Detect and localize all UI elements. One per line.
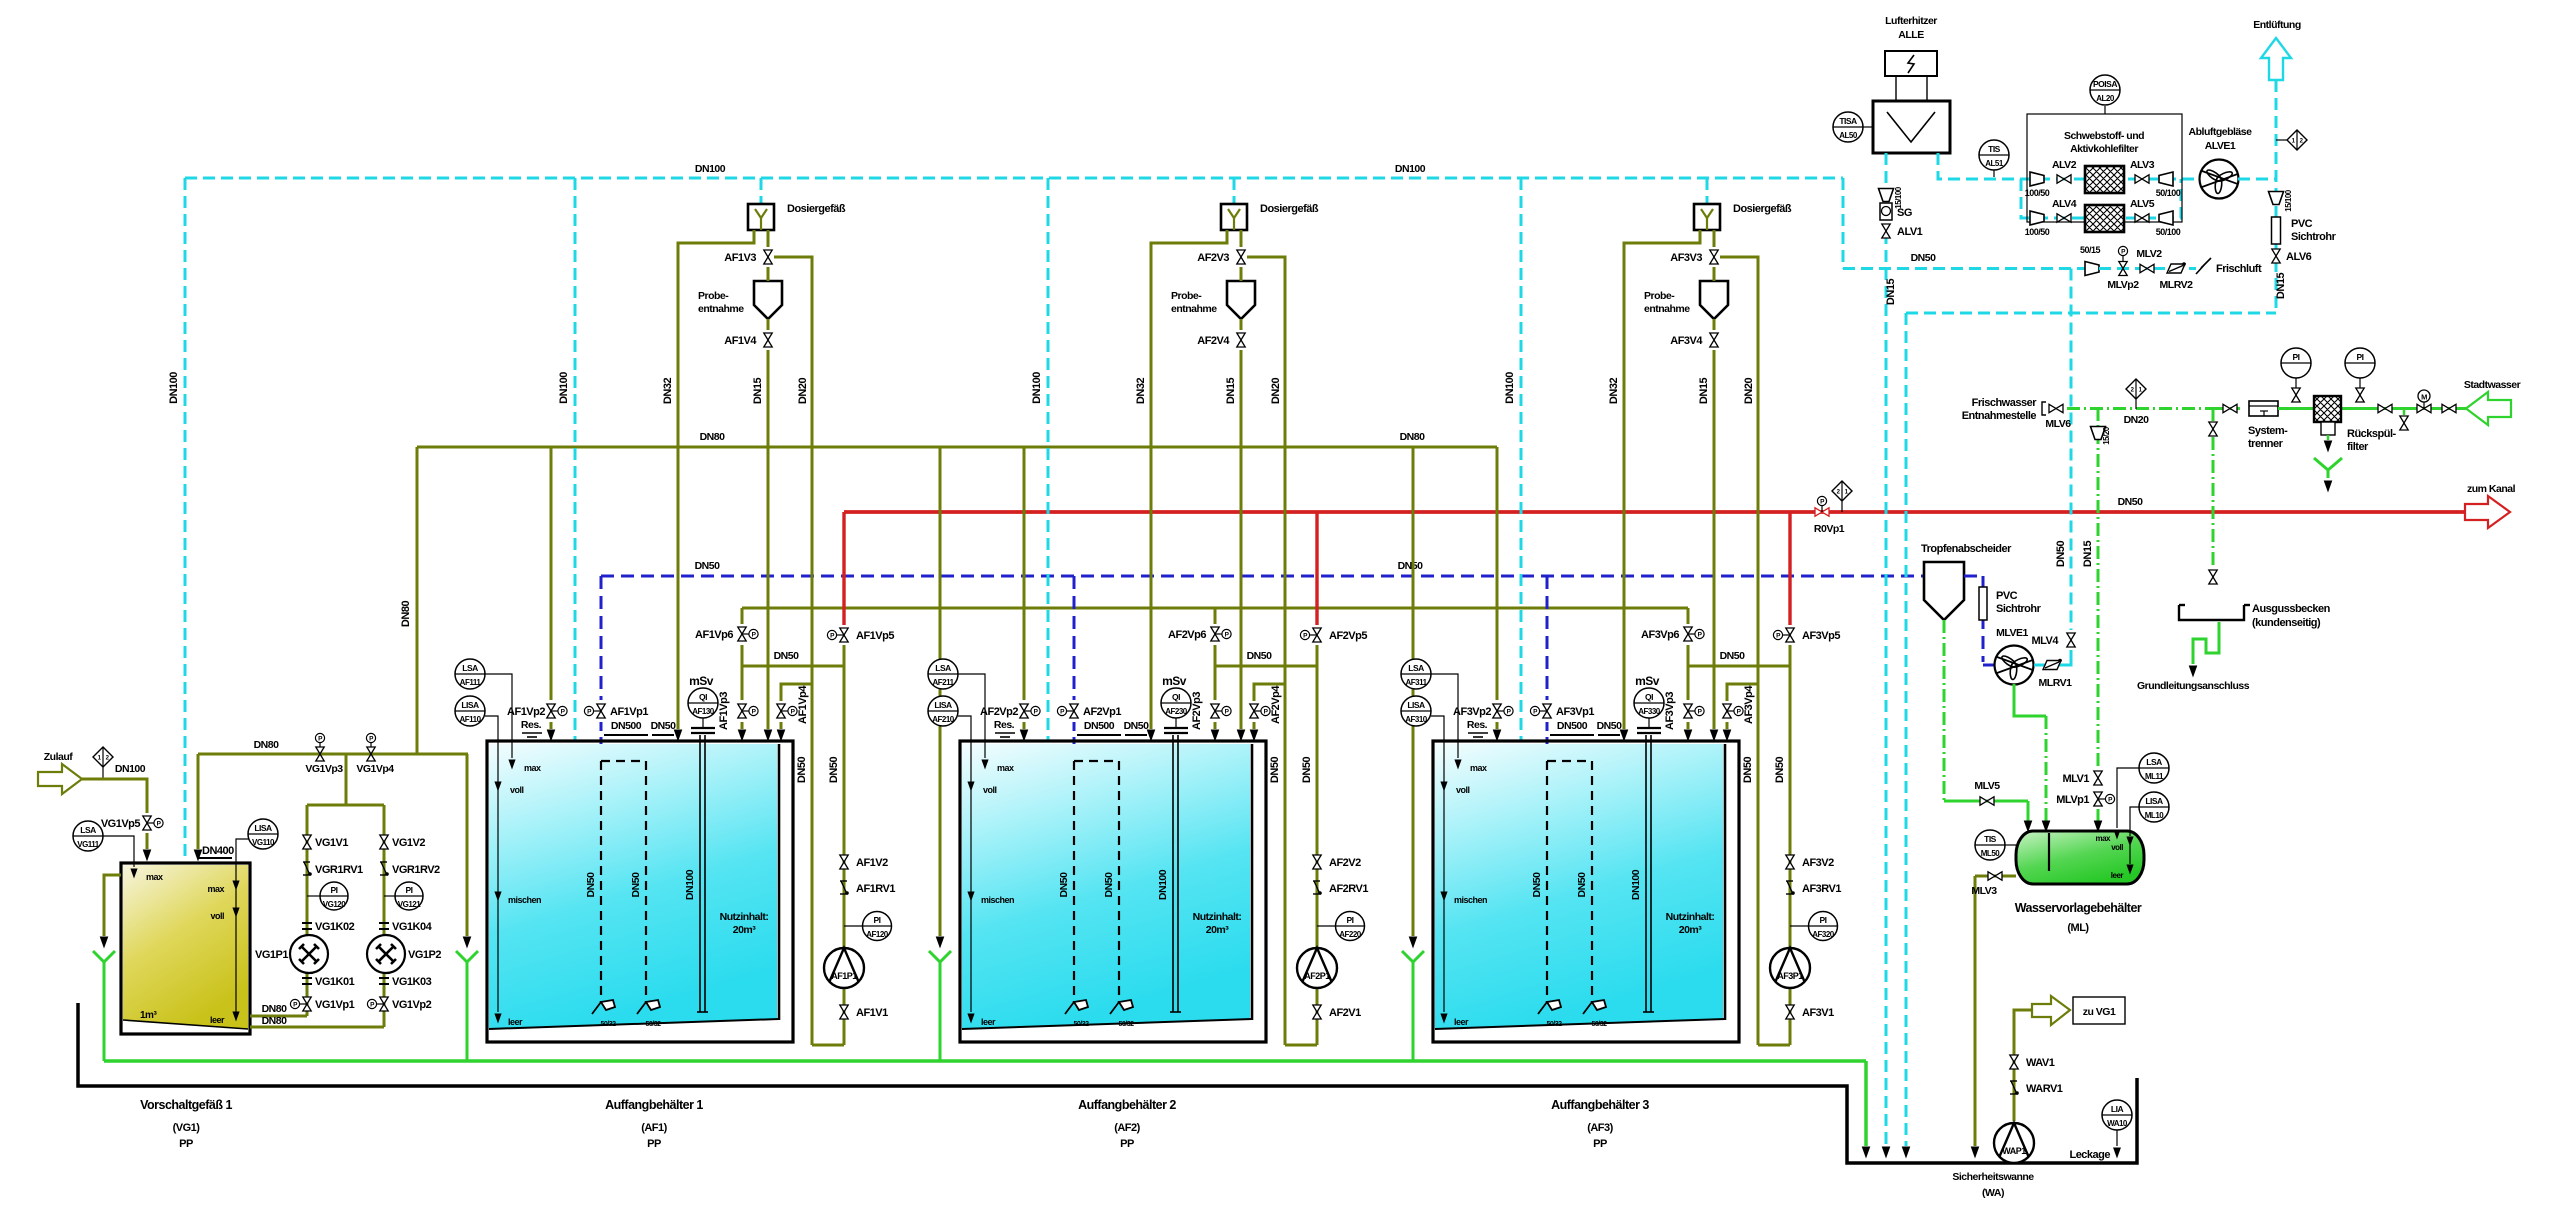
bracket MLV6 bbox=[2042, 402, 2046, 415]
wire red riser AF1 bbox=[842, 512, 845, 625]
label DN20 AF3 bbox=[1743, 378, 1755, 405]
valve AF1V4 bbox=[764, 319, 772, 347]
wire olive DN50 pump col AF2 bbox=[1285, 666, 1317, 1045]
valve systemtrenner inlet bbox=[2223, 404, 2237, 412]
drain funnel Y AF3 bbox=[1402, 951, 1424, 1061]
tank AF3 fill bbox=[1435, 744, 1723, 1029]
label Tropfenabscheider bbox=[1921, 543, 2012, 555]
wire olive Vp6 to T AF1 bbox=[741, 645, 744, 700]
label AF3V1 bbox=[1802, 1007, 1834, 1019]
label DN20 bbox=[2124, 414, 2150, 426]
label MLVp2 bbox=[2107, 279, 2139, 291]
fan Abluftgeblaese ALVE1 bbox=[2200, 160, 2239, 199]
svg-text:DN50: DN50 bbox=[1597, 720, 1623, 732]
svg-text:DN100: DN100 bbox=[1157, 869, 1169, 900]
wire green MLV5 line bbox=[1944, 800, 2024, 803]
label Leckage bbox=[2069, 1149, 2110, 1161]
svg-text:Probe-: Probe- bbox=[698, 290, 729, 302]
svg-text:DN20: DN20 bbox=[2124, 414, 2150, 426]
label AF2Vp3 bbox=[1191, 692, 1203, 730]
label Dosiergefaess AF2 bbox=[1260, 203, 1319, 215]
svg-text:Dosiergefäß: Dosiergefäß bbox=[1260, 203, 1319, 215]
svg-text:ALV5: ALV5 bbox=[2130, 198, 2155, 210]
funnel Probeentnahme AF2 bbox=[1227, 267, 1255, 319]
svg-text:LISA: LISA bbox=[461, 700, 479, 710]
wire blue into tank AF3 bbox=[1546, 722, 1549, 761]
valve AF2Vp6 bbox=[1211, 627, 1231, 641]
vessel Tropfenabscheider bbox=[1924, 562, 1964, 620]
valve ALV3 bbox=[2135, 175, 2149, 183]
label ALV4 bbox=[2052, 198, 2077, 210]
svg-text:System-: System- bbox=[2248, 425, 2288, 437]
label Ausgussbecken bbox=[2252, 603, 2331, 629]
box zu VG1 bbox=[2073, 997, 2125, 1024]
wire olive into tank Vp3 AF1 bbox=[738, 722, 745, 740]
svg-text:AF310: AF310 bbox=[1405, 715, 1428, 724]
svg-text:VG1Vp3: VG1Vp3 bbox=[305, 763, 343, 775]
svg-text:AF2Vp2: AF2Vp2 bbox=[980, 706, 1018, 718]
label WARV1 bbox=[2026, 1083, 2063, 1095]
tank AF1 outline bbox=[487, 741, 793, 1042]
wire olive DN50 left down AF3 bbox=[1757, 684, 1760, 1045]
svg-text:DN15: DN15 bbox=[1885, 279, 1897, 306]
label DN50 cross AF3 bbox=[1720, 650, 1746, 662]
svg-text:AF1Vp5: AF1Vp5 bbox=[856, 630, 894, 642]
svg-text:AF2Vp5: AF2Vp5 bbox=[1329, 630, 1367, 642]
wire red riser AF3 bbox=[1788, 512, 1791, 625]
Lufterhitzer main box bbox=[1873, 101, 1950, 153]
label Frischluft bbox=[2216, 263, 2262, 275]
wire cyan lower filter row bbox=[2021, 179, 2181, 218]
label AF3Vp6 bbox=[1641, 629, 1679, 641]
dip tube DN50a AF1 bbox=[601, 761, 646, 1003]
nozzle 50/32 b AF2 bbox=[1110, 1000, 1134, 1028]
wire olive DN20 branch AF1 bbox=[774, 257, 812, 684]
svg-text:AF111: AF111 bbox=[460, 678, 482, 687]
svg-text:Abluftgebläse: Abluftgebläse bbox=[2189, 126, 2253, 138]
svg-text:VG1V2: VG1V2 bbox=[392, 837, 425, 849]
svg-text:voll: voll bbox=[983, 785, 997, 795]
svg-text:VG1Vp5: VG1Vp5 bbox=[101, 818, 141, 830]
svg-text:AF2Vp6: AF2Vp6 bbox=[1168, 629, 1206, 641]
labels DN50 tubes AF1 bbox=[585, 872, 642, 898]
wire green into ML tank bbox=[2024, 801, 2032, 831]
label DN80 main bbox=[700, 431, 1426, 443]
svg-text:AF2P1: AF2P1 bbox=[1304, 971, 1330, 981]
wire green siphon bbox=[2189, 622, 2219, 676]
valve AF2Vp2 bbox=[1020, 704, 1040, 718]
label MLVE1 bbox=[1996, 627, 2028, 639]
basin Ausgussbecken bbox=[2179, 605, 2250, 620]
label Lufterhitzer bbox=[1885, 15, 1937, 41]
filter enclosure box bbox=[2027, 114, 2182, 222]
Dosiergefaess box AF3 bbox=[1694, 204, 1720, 230]
label AF1Vp4 bbox=[797, 685, 809, 724]
label DN50 red main bbox=[2118, 496, 2144, 508]
label AF2RV1 bbox=[1329, 883, 1368, 895]
svg-text:VG1K02: VG1K02 bbox=[315, 921, 355, 933]
svg-text:QI: QI bbox=[1172, 692, 1180, 702]
instrument LSA AF111 bbox=[455, 659, 515, 768]
drain Y Rueckspuelfilter bbox=[2314, 458, 2342, 491]
valve MLV5 bbox=[1980, 797, 1994, 805]
wire olive into tank Vp4 AF2 bbox=[1250, 722, 1257, 740]
valve AF2Vp1 bbox=[1057, 704, 1078, 718]
arrow zu VG1 bbox=[2032, 996, 2070, 1025]
label DN15 AF1 bbox=[752, 378, 764, 405]
label AF3V2 bbox=[1802, 857, 1834, 869]
reducer 50/15 bbox=[2080, 245, 2101, 276]
wire blue drop AF3 bbox=[1546, 576, 1549, 700]
label DN100 tube AF3 bbox=[1630, 869, 1642, 900]
label AF1V3 bbox=[724, 252, 756, 264]
wire olive DN32 branch AF1 bbox=[674, 230, 754, 740]
svg-text:Auffangbehälter 1: Auffangbehälter 1 bbox=[605, 1098, 703, 1112]
svg-text:AF311: AF311 bbox=[1405, 678, 1427, 687]
label AF3Vp1 bbox=[1556, 706, 1594, 718]
label DN50 MLV4 riser bbox=[2055, 541, 2067, 568]
svg-text:mischen: mischen bbox=[508, 895, 541, 905]
wire blue drop AF2 bbox=[1073, 576, 1076, 700]
valve WAV1 bbox=[2010, 1055, 2018, 1069]
valve AF1Vp3 bbox=[738, 704, 758, 718]
svg-text:DN100: DN100 bbox=[1504, 372, 1516, 404]
svg-text:MLRV1: MLRV1 bbox=[2039, 677, 2073, 689]
wire olive Zulauf line bbox=[82, 779, 147, 813]
svg-text:AF3Vp2: AF3Vp2 bbox=[1453, 706, 1491, 718]
wire cyan fan outlet bbox=[2238, 178, 2276, 181]
funnel Probeentnahme AF1 bbox=[754, 267, 782, 319]
svg-text:LIA: LIA bbox=[2111, 1104, 2124, 1114]
label VG1V1 bbox=[315, 837, 348, 849]
svg-text:DN500: DN500 bbox=[1557, 720, 1588, 732]
drain funnel Y AF2 bbox=[929, 951, 951, 1061]
label VG1K03 bbox=[392, 976, 432, 988]
instrument TISA AL50 bbox=[1833, 112, 1873, 142]
svg-text:PP: PP bbox=[1120, 1138, 1134, 1150]
label VG1K04 bbox=[392, 921, 433, 933]
wire green dashdot frischwasser bbox=[2067, 407, 2213, 410]
wire olive riser Vp6 AF1 bbox=[741, 608, 744, 624]
label VG1V2 bbox=[392, 837, 425, 849]
tank VG1 outline bbox=[121, 863, 250, 1034]
svg-text:DN15: DN15 bbox=[1225, 378, 1237, 405]
svg-text:MLRV2: MLRV2 bbox=[2160, 279, 2194, 291]
svg-text:DN80: DN80 bbox=[254, 739, 280, 751]
label DN50 pump col AF3 bbox=[1774, 757, 1786, 784]
label AF3RV1 bbox=[1802, 883, 1841, 895]
arrow Stadtwasser bbox=[2466, 392, 2511, 425]
valve AF3Vp1 bbox=[1530, 704, 1551, 718]
svg-text:AF330: AF330 bbox=[1638, 707, 1661, 716]
label max ML bbox=[2095, 834, 2111, 843]
label VGR1RV1 bbox=[315, 864, 363, 876]
label Auffangbehaelter AF1 bbox=[605, 1098, 703, 1150]
valve AF3V1 bbox=[1786, 1005, 1794, 1019]
svg-text:AF3Vp5: AF3Vp5 bbox=[1802, 630, 1840, 642]
svg-text:MLVp1: MLVp1 bbox=[2056, 794, 2089, 806]
wire olive tank drain AF3 bbox=[1409, 447, 1416, 947]
wire cyan DN100 main header bbox=[185, 177, 1843, 180]
arrow Entlueftung bbox=[2261, 38, 2291, 80]
svg-text:DN100: DN100 bbox=[168, 372, 180, 404]
label VG1Vp3 bbox=[305, 763, 343, 775]
wire blue to sichtrohr bbox=[1964, 576, 1983, 662]
svg-text:DN15: DN15 bbox=[752, 378, 764, 405]
svg-text:DN50: DN50 bbox=[1124, 720, 1150, 732]
label AF3V4 bbox=[1670, 335, 1703, 347]
valve AF2V2 bbox=[1313, 855, 1321, 869]
wire cyan DN100 riser AF3 bbox=[1520, 178, 1523, 740]
valve ALV4 bbox=[2057, 214, 2071, 222]
labels DN50 tubes AF2 bbox=[1058, 872, 1115, 898]
label WAV1 bbox=[2026, 1057, 2055, 1069]
arrow Zulauf inlet bbox=[38, 764, 82, 794]
wire olive DN50 cross AF1 bbox=[742, 665, 844, 668]
svg-text:DN100: DN100 bbox=[1031, 372, 1043, 404]
svg-text:AF3P1: AF3P1 bbox=[1777, 971, 1803, 981]
wire cyan heater to filters bbox=[1938, 153, 2199, 179]
svg-text:AF2V1: AF2V1 bbox=[1329, 1007, 1361, 1019]
wire cyan DN50 frischluft bbox=[1843, 267, 2086, 270]
svg-text:DN15: DN15 bbox=[2082, 541, 2094, 568]
label Nutzinhalt AF3 bbox=[1666, 911, 1715, 936]
label Probeentnahme AF3 bbox=[1644, 290, 1690, 315]
nozzle 50/32 a AF1 bbox=[592, 1000, 616, 1028]
valve PI2 bbox=[2356, 388, 2364, 402]
wire cyan to Dosiergefaess AF3 bbox=[1706, 178, 1709, 204]
check valve MLRV1 bbox=[2043, 659, 2062, 670]
svg-text:AF3Vp4: AF3Vp4 bbox=[1743, 685, 1755, 724]
label DN100 riser AF2 bbox=[1031, 372, 1043, 404]
label MLV6 bbox=[2045, 418, 2071, 430]
svg-text:(ML): (ML) bbox=[2067, 922, 2089, 934]
tank ML fill bbox=[2016, 831, 2144, 884]
label AF1V4 bbox=[724, 335, 757, 347]
svg-text:VG1K04: VG1K04 bbox=[392, 921, 433, 933]
svg-text:AF1Vp6: AF1Vp6 bbox=[695, 629, 733, 641]
svg-text:AF2V4: AF2V4 bbox=[1197, 335, 1230, 347]
svg-text:AF220: AF220 bbox=[1339, 930, 1362, 939]
svg-text:voll: voll bbox=[1456, 785, 1470, 795]
wire olive DN15 AF1 bbox=[767, 230, 770, 247]
svg-text:AF3V3: AF3V3 bbox=[1670, 252, 1702, 264]
wire cyan vent drop to wanne bbox=[1902, 313, 1909, 1157]
dip tube ML bbox=[2048, 833, 2050, 871]
svg-text:PI: PI bbox=[1819, 915, 1826, 925]
svg-text:LSA: LSA bbox=[2146, 757, 2162, 767]
wire olive into tank AF3 bbox=[1493, 722, 1500, 740]
valve MLVp1 bbox=[2094, 792, 2115, 806]
svg-text:AF3V2: AF3V2 bbox=[1802, 857, 1834, 869]
label ALV2 bbox=[2052, 159, 2077, 171]
svg-text:trenner: trenner bbox=[2248, 438, 2284, 450]
svg-text:AF2Vp4: AF2Vp4 bbox=[1270, 685, 1282, 724]
svg-text:100/50: 100/50 bbox=[2025, 227, 2050, 237]
wire olive DN32 branch AF2 bbox=[1147, 230, 1227, 740]
svg-text:PVC: PVC bbox=[1996, 590, 2018, 602]
svg-text:1m³: 1m³ bbox=[140, 1010, 157, 1021]
instrument LSA AF211 bbox=[928, 659, 988, 768]
svg-text:AF211: AF211 bbox=[932, 678, 954, 687]
wire olive DN50 left down AF2 bbox=[1284, 684, 1287, 1045]
svg-text:DN100: DN100 bbox=[695, 163, 726, 175]
svg-text:Sicherheitswanne: Sicherheitswanne bbox=[1952, 1171, 2034, 1183]
sight glass PVC Sichtrohr ML bbox=[1979, 587, 1987, 620]
tank AF3 outline bbox=[1433, 741, 1739, 1042]
svg-text:Res.: Res. bbox=[521, 719, 542, 731]
nozzle 50/32 b AF1 bbox=[637, 1000, 661, 1028]
valve AF1Vp1 bbox=[584, 704, 605, 718]
wire olive feed drop AF1 bbox=[550, 447, 553, 700]
label AF1V2 bbox=[856, 857, 888, 869]
wire olive VG1 DN80 top line bbox=[198, 753, 468, 756]
label Dosiergefaess AF1 bbox=[787, 203, 846, 215]
svg-text:Stadtwasser: Stadtwasser bbox=[2464, 379, 2521, 391]
svg-text:VG110: VG110 bbox=[252, 838, 275, 847]
wire olive VG1 pump suctions bbox=[250, 1016, 384, 1027]
valve ausguss bottom bbox=[2209, 570, 2217, 584]
wire cyan DN100 riser to VG1 bbox=[184, 178, 187, 861]
coupling VG1K04 bbox=[379, 923, 389, 929]
svg-text:50/100: 50/100 bbox=[2156, 188, 2181, 198]
wire olive into VG1 bbox=[143, 833, 150, 860]
label AF3V3 bbox=[1670, 252, 1702, 264]
svg-text:VG111: VG111 bbox=[77, 840, 100, 849]
svg-text:DN50: DN50 bbox=[1103, 872, 1115, 898]
instrument LISA VG110 bbox=[248, 819, 278, 849]
valve MLV3 line bbox=[1971, 876, 2016, 1157]
svg-text:DN100: DN100 bbox=[684, 869, 696, 900]
svg-text:R0Vp1: R0Vp1 bbox=[1814, 523, 1845, 535]
label DN50 pump col AF2 bbox=[1301, 757, 1313, 784]
level line VG111 bbox=[103, 836, 163, 882]
sight glass PVC Sichtrohr vent bbox=[2272, 217, 2281, 244]
label AF3Vp5 bbox=[1802, 630, 1840, 642]
valve MLV1 bbox=[2094, 771, 2102, 785]
svg-text:PVC: PVC bbox=[2291, 218, 2313, 230]
label Res AF3 bbox=[1467, 719, 1488, 737]
sensor bars AF1 bbox=[691, 718, 715, 733]
svg-text:VG120: VG120 bbox=[323, 900, 346, 909]
label ALV5 bbox=[2130, 198, 2155, 210]
svg-text:AF1Vp2: AF1Vp2 bbox=[507, 706, 545, 718]
label DN50 pump col AF1 bbox=[828, 757, 840, 784]
label max AF1 bbox=[524, 763, 541, 773]
wire olive into tank Vp4 AF1 bbox=[777, 722, 784, 740]
valve ALV5 bbox=[2135, 214, 2149, 222]
svg-text:DN100: DN100 bbox=[115, 763, 146, 775]
svg-text:DN50: DN50 bbox=[828, 757, 840, 784]
label Vorschaltgefaess 1 bbox=[140, 1098, 232, 1150]
funnel 15/20 bbox=[2091, 426, 2112, 445]
svg-text:PP: PP bbox=[647, 1138, 661, 1150]
instrument QI AF330 bbox=[1634, 688, 1664, 718]
svg-text:MLVE1: MLVE1 bbox=[1996, 627, 2028, 639]
wire olive into tank AF2 bbox=[1020, 722, 1027, 740]
svg-text:ML50: ML50 bbox=[1981, 849, 2001, 858]
wire olive DN20 loop AF2 bbox=[1254, 684, 1285, 701]
funnel 15/100 SG bbox=[1879, 186, 1904, 209]
Lufterhitzer small box bbox=[1885, 51, 1937, 101]
valve ausguss top bbox=[2209, 422, 2217, 436]
instrument PI 1 bbox=[2281, 348, 2311, 388]
svg-text:VG1Vp1: VG1Vp1 bbox=[315, 999, 355, 1011]
svg-text:(AF1): (AF1) bbox=[641, 1122, 667, 1134]
valve AF1V1 bbox=[840, 1005, 848, 1019]
wire olive DN15 down AF1 bbox=[764, 350, 771, 740]
label DN80 suction bbox=[262, 1003, 288, 1027]
svg-text:WAP1: WAP1 bbox=[2002, 1146, 2026, 1156]
svg-text:DN50: DN50 bbox=[1269, 757, 1281, 784]
svg-text:50/15: 50/15 bbox=[2080, 245, 2101, 255]
svg-text:AF320: AF320 bbox=[1812, 930, 1835, 939]
svg-text:mischen: mischen bbox=[981, 895, 1014, 905]
label ALV1 bbox=[1897, 226, 1923, 238]
svg-text:Nutzinhalt:: Nutzinhalt: bbox=[720, 911, 769, 923]
valve AF3Vp2 bbox=[1493, 704, 1513, 718]
check valve MLRV2 bbox=[2167, 262, 2186, 273]
label Auffangbehaelter AF3 bbox=[1551, 1098, 1649, 1150]
label DN15 SG column bbox=[1885, 279, 1897, 306]
reducer 50/100 lower bbox=[2156, 211, 2181, 237]
svg-text:leer: leer bbox=[1454, 1017, 1469, 1027]
wire cyan SG column top bbox=[1885, 153, 1888, 188]
pump AF1P1 bbox=[824, 948, 864, 988]
instrument LISA AF310 bbox=[1401, 696, 1447, 1022]
label Schwebstoff bbox=[2064, 130, 2144, 155]
pump VG1P2 bbox=[367, 935, 405, 973]
svg-text:DN32: DN32 bbox=[662, 378, 674, 405]
svg-text:15/100: 15/100 bbox=[1894, 186, 1903, 209]
diamond 1|2 vent bbox=[2276, 130, 2307, 150]
svg-text:DN50: DN50 bbox=[695, 560, 721, 572]
label Dosiergefaess AF3 bbox=[1733, 203, 1792, 215]
check valve AF2RV1 bbox=[1313, 881, 1322, 895]
svg-text:mSv: mSv bbox=[1635, 674, 1660, 688]
wire cyan DN100 riser AF2 bbox=[1047, 178, 1050, 740]
label 1m3 VG1 bbox=[140, 1010, 157, 1021]
tank VG1 Vorschaltgefaess fill bbox=[123, 865, 248, 1029]
filter box upper bbox=[2085, 166, 2124, 193]
svg-text:PI: PI bbox=[405, 885, 412, 895]
svg-text:entnahme: entnahme bbox=[1644, 303, 1690, 315]
svg-text:Lufterhitzer: Lufterhitzer bbox=[1885, 15, 1937, 27]
instrument PI VG121 bbox=[384, 882, 423, 910]
wire olive feed drop AF2 bbox=[1023, 447, 1026, 700]
svg-text:DN50: DN50 bbox=[2055, 541, 2067, 568]
svg-text:DN20: DN20 bbox=[1270, 378, 1282, 405]
valve MLV4 bbox=[2067, 633, 2075, 647]
svg-text:Vorschaltgefäß 1: Vorschaltgefäß 1 bbox=[140, 1098, 232, 1112]
svg-text:max: max bbox=[2095, 834, 2111, 843]
pump AF3P1 bbox=[1770, 948, 1810, 988]
svg-text:DN80: DN80 bbox=[400, 601, 412, 628]
pump WAP1 bbox=[1994, 1123, 2034, 1163]
svg-text:AF1RV1: AF1RV1 bbox=[856, 883, 895, 895]
wire olive feed drop AF3 bbox=[1496, 447, 1499, 700]
svg-text:AL20: AL20 bbox=[2096, 94, 2115, 103]
tank AF2 fill bbox=[962, 744, 1250, 1029]
instrument LSA AF311 bbox=[1401, 659, 1461, 768]
label Zulauf bbox=[44, 751, 73, 763]
svg-text:(kundenseitig): (kundenseitig) bbox=[2252, 617, 2321, 629]
svg-text:LISA: LISA bbox=[934, 700, 952, 710]
svg-text:PI: PI bbox=[2292, 352, 2299, 362]
label DN80 VG1 bbox=[254, 739, 280, 751]
valve MLV2 bbox=[2140, 264, 2154, 272]
svg-text:50/32: 50/32 bbox=[645, 1021, 661, 1028]
